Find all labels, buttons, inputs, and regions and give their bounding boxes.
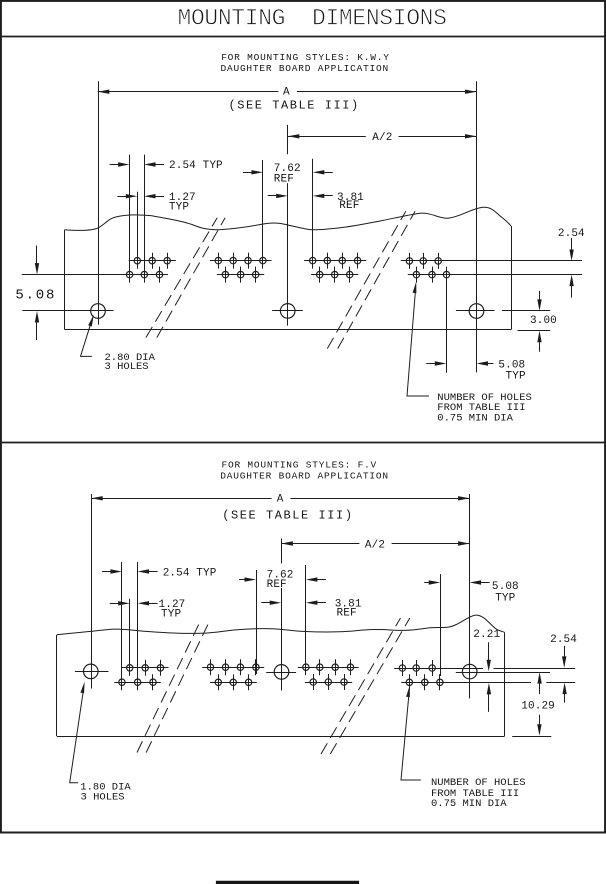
mounting hole right (panel 1) — [456, 304, 550, 319]
dimension 2.54 right (panel 1) — [558, 228, 585, 298]
panel 1 header text — [221, 52, 390, 74]
dimension A (panel 1) — [98, 86, 477, 98]
svg-text:2.21: 2.21 — [473, 629, 500, 641]
dimension 7.62 REF (panel 2) — [239, 569, 326, 591]
title separator line — [0, 36, 606, 38]
panel 2 header text — [220, 459, 389, 481]
extension lines hole pitch (panel 2) — [122, 562, 138, 689]
svg-text:A/2: A/2 — [372, 132, 392, 144]
dimension 5.08 left (panel 1) — [15, 246, 56, 340]
dimension A/2 (panel 2) — [281, 539, 469, 551]
mounting hole center (panel 2) — [266, 665, 296, 680]
svg-text:REF: REF — [274, 174, 294, 186]
extension line right A (panel 2) — [469, 494, 471, 698]
extension line center A/2 (panel 1) — [287, 125, 289, 326]
svg-text:5.08: 5.08 — [492, 581, 519, 593]
leader 1.80 DIA 3 HOLES (panel 2) — [70, 682, 132, 804]
break lines right (panel 2) — [321, 618, 410, 754]
footer bar — [216, 881, 359, 884]
see table III note (panel 2) — [222, 509, 353, 523]
hole cluster 2 (panel 2) — [202, 659, 264, 690]
dimension 5.08 TYP (panel 2) — [424, 574, 519, 676]
dimension 2.54 TYP (panel 2) — [102, 567, 217, 579]
extension lines 7.62 (panel 1) — [263, 159, 313, 268]
leader NUMBER OF HOLES (panel 2) — [401, 686, 526, 811]
hole cluster 4 (panel 1) — [401, 253, 582, 283]
hole cluster 3 (panel 1) — [304, 253, 366, 283]
svg-text:(SEE TABLE III): (SEE TABLE III) — [229, 99, 360, 113]
dimension 10.29 (panel 2) — [512, 672, 555, 736]
svg-text:A/2: A/2 — [365, 539, 385, 551]
svg-text:3 HOLES: 3 HOLES — [105, 361, 149, 373]
svg-text:FOR MOUNTING STYLES: F.V: FOR MOUNTING STYLES: F.V — [222, 459, 378, 470]
hole cluster 1 (panel 1) — [22, 253, 176, 283]
svg-text:TYP: TYP — [506, 371, 526, 383]
extension line left A (panel 1) — [98, 81, 100, 324]
mounting hole right (panel 2) — [456, 664, 550, 679]
dimension 1.27 TYP (panel 2) — [110, 599, 186, 621]
dimension A (panel 2) — [91, 493, 469, 505]
svg-text:TYP: TYP — [161, 609, 181, 621]
leader 2.80 DIA 3 HOLES (panel 1) — [81, 315, 156, 373]
break lines right (panel 1) — [327, 211, 415, 348]
svg-text:0.75 MIN DIA: 0.75 MIN DIA — [437, 413, 513, 425]
svg-text:3.00: 3.00 — [530, 315, 557, 327]
see table III note (panel 1) — [229, 99, 360, 113]
hole cluster 1 (panel 2) — [114, 660, 168, 690]
svg-text:0.75 MIN DIA: 0.75 MIN DIA — [431, 798, 507, 810]
dimension A/2 (panel 1) — [288, 132, 477, 144]
dimension 2.21 (panel 2) — [473, 629, 500, 712]
title MOUNTING DIMENSIONS — [178, 5, 447, 31]
extension lines hole pitch (panel 1) — [130, 155, 145, 282]
dimension 1.27 TYP (panel 1) — [117, 192, 195, 214]
svg-text:2.54 TYP: 2.54 TYP — [163, 567, 217, 579]
mounting hole center (panel 1) — [272, 304, 303, 319]
svg-text:REF: REF — [337, 608, 357, 620]
svg-text:DAUGHTER BOARD APPLICATION: DAUGHTER BOARD APPLICATION — [220, 470, 389, 481]
svg-text:DAUGHTER BOARD APPLICATION: DAUGHTER BOARD APPLICATION — [221, 63, 390, 74]
hole cluster 2 (panel 1) — [210, 253, 272, 283]
dimension 7.62 REF (panel 1) — [243, 163, 333, 186]
svg-text:MOUNTING DIMENSIONS: MOUNTING DIMENSIONS — [178, 5, 447, 31]
svg-text:A: A — [283, 86, 290, 98]
svg-text:10.29: 10.29 — [521, 701, 555, 713]
svg-text:A: A — [277, 493, 284, 505]
extension line right A (panel 1) — [476, 81, 478, 372]
svg-text:REF: REF — [267, 579, 287, 591]
dimension 2.54 TYP (panel 1) — [110, 160, 223, 172]
dimension 2.54 right (panel 2) — [550, 634, 577, 703]
svg-text:FOR MOUNTING STYLES: K.W.Y: FOR MOUNTING STYLES: K.W.Y — [221, 52, 390, 63]
hole cluster 3 (panel 2) — [298, 659, 359, 690]
svg-text:TYP: TYP — [495, 592, 515, 604]
extension line center A/2 (panel 2) — [281, 539, 283, 691]
leader NUMBER OF HOLES (panel 1) — [407, 282, 532, 425]
extension lines 7.62 (panel 2) — [257, 565, 306, 674]
board outline with broken edge (panel 2) — [57, 615, 505, 736]
dimension 3.81 REF (panel 2) — [261, 598, 362, 619]
svg-text:REF: REF — [339, 200, 359, 212]
svg-text:(SEE TABLE III): (SEE TABLE III) — [222, 509, 353, 523]
extension line left A (panel 2) — [91, 494, 93, 689]
break lines left (panel 2) — [137, 623, 209, 752]
dimension 3.00 (panel 1) — [518, 291, 557, 352]
svg-text:TYP: TYP — [169, 202, 189, 214]
svg-text:5.08: 5.08 — [15, 287, 56, 303]
svg-text:2.54: 2.54 — [550, 634, 577, 646]
panel divider line — [0, 442, 606, 444]
svg-text:2.54 TYP: 2.54 TYP — [169, 160, 223, 172]
mounting hole left 2.80 DIA (panel 1) — [22, 304, 113, 319]
svg-text:2.54: 2.54 — [558, 228, 585, 240]
break lines left (panel 1) — [146, 218, 225, 338]
hole cluster 4 (panel 2) — [394, 660, 575, 690]
svg-text:3 HOLES: 3 HOLES — [81, 792, 125, 804]
dimension 5.08 TYP (panel 1) — [426, 277, 526, 383]
board outline with broken edge (panel 1) — [65, 207, 512, 329]
dimension 3.81 REF (panel 1) — [268, 192, 364, 212]
mounting hole left 1.80 DIA (panel 2) — [75, 664, 109, 679]
